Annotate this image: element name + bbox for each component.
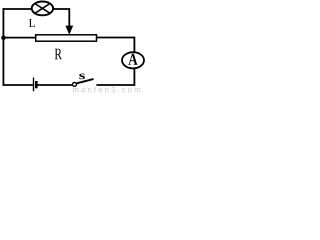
wire rheostat right to ammeter <box>97 38 135 53</box>
node junction dot <box>1 35 6 40</box>
watermark text <box>73 87 140 93</box>
wire ammeter to bottom right corner <box>96 68 134 85</box>
wire bottom left (corner to battery) <box>3 84 33 86</box>
wire lamp to top right corner <box>53 9 70 27</box>
ammeter A <box>122 52 144 68</box>
label s <box>79 74 85 80</box>
battery cell positive plate <box>33 78 35 92</box>
rheostat R body <box>36 35 97 41</box>
wire top left (corner to lamp) <box>3 8 33 10</box>
switch S lever <box>76 79 93 83</box>
wire left vertical <box>2 8 4 86</box>
lamp L <box>32 1 53 15</box>
label L <box>29 19 35 27</box>
wiper arrow of rheostat <box>65 26 73 35</box>
label R <box>55 49 62 60</box>
battery cell negative plate <box>35 81 38 88</box>
wire battery to switch pivot <box>37 84 72 86</box>
switch S pivot <box>73 82 77 86</box>
wire junction to rheostat left <box>3 37 36 39</box>
